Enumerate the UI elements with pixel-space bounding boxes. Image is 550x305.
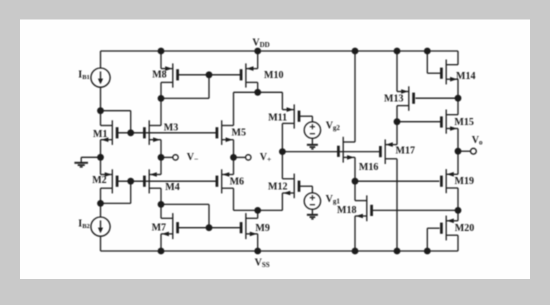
svg-text:M6: M6 — [230, 176, 244, 187]
svg-text:M19: M19 — [455, 176, 474, 187]
svg-text:M4: M4 — [165, 182, 179, 193]
svg-text:M15: M15 — [454, 117, 473, 128]
svg-text:M10: M10 — [264, 70, 283, 81]
svg-text:M7: M7 — [152, 223, 166, 234]
svg-text:M20: M20 — [455, 223, 474, 234]
svg-text:M2: M2 — [92, 175, 106, 186]
svg-text:M16: M16 — [359, 162, 378, 173]
svg-text:V+: V+ — [260, 152, 272, 164]
svg-text:M12: M12 — [268, 182, 287, 193]
svg-text:M18: M18 — [337, 205, 356, 216]
svg-text:M3: M3 — [164, 123, 178, 134]
svg-text:M17: M17 — [396, 145, 415, 156]
svg-text:M9: M9 — [255, 223, 269, 234]
svg-text:M11: M11 — [268, 113, 287, 124]
svg-text:M1: M1 — [93, 129, 107, 140]
svg-text:V−: V− — [187, 152, 199, 164]
svg-text:M5: M5 — [232, 128, 246, 139]
svg-text:M14: M14 — [456, 71, 475, 82]
svg-text:M13: M13 — [384, 93, 403, 104]
svg-text:M8: M8 — [152, 70, 166, 81]
